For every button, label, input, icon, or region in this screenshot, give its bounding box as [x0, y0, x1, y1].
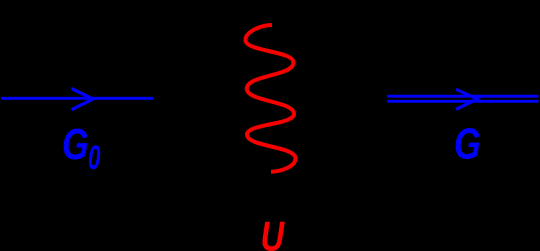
svg-text:0: 0 — [88, 140, 100, 178]
svg-text:G: G — [62, 120, 89, 169]
svg-text:G: G — [454, 119, 481, 168]
svg-text:U: U — [261, 213, 285, 251]
